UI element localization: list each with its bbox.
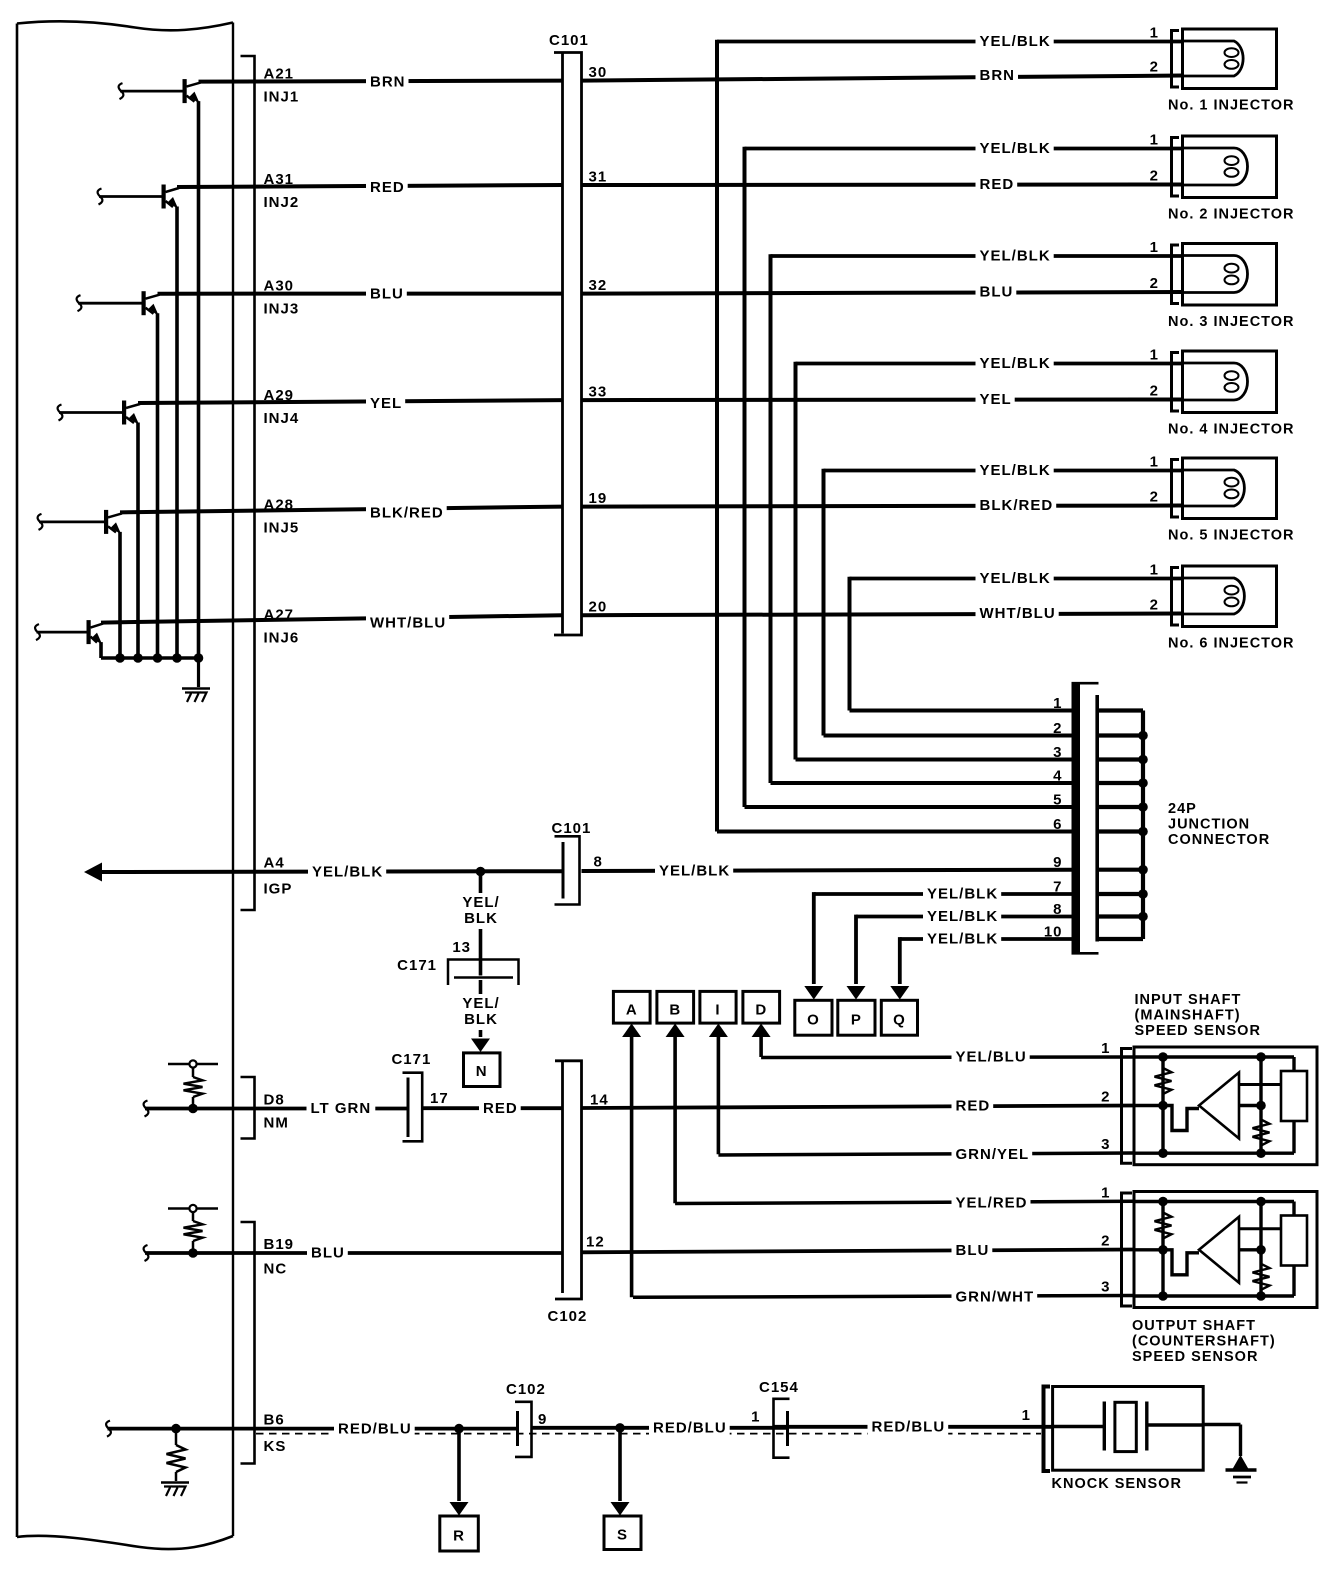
24P junction connector body — [1072, 683, 1081, 954]
connector C171 (in-line, D8 row) — [407, 1078, 410, 1138]
svg-text:8: 8 — [594, 854, 603, 871]
wire - GRN/WHT to speed sensor pin 3 — [633, 1296, 1134, 1298]
wire label GRN/WHT — [952, 1287, 1038, 1305]
junction — [1138, 731, 1148, 741]
junction — [188, 1248, 198, 1258]
svg-text:BRN: BRN — [370, 74, 406, 91]
junction (YEL/BLK branch) — [476, 867, 486, 877]
wire - Q5 emitter to ground rail — [118, 532, 122, 658]
svg-text:No. 3 INJECTOR: No. 3 INJECTOR — [1168, 314, 1295, 330]
svg-text:BLU: BLU — [980, 284, 1014, 301]
wire - BLK/RED C101 pin 19 to No.5 injector pin 2 — [582, 506, 1183, 507]
svg-text:BLU: BLU — [370, 286, 404, 303]
load resistor (output shaft sensor) — [1281, 1216, 1307, 1266]
wire label RED/BLU — [334, 1420, 415, 1438]
internal wiring (output shaft sensor) — [1239, 1248, 1261, 1251]
transistor Q3 (injector driver 3) — [77, 295, 82, 311]
ground (777) — [161, 1481, 189, 1484]
svg-text:2: 2 — [1101, 1089, 1110, 1106]
wire - YEL/BLK junction to P — [856, 915, 1072, 919]
svg-text:C101: C101 — [549, 32, 589, 49]
wire label BLU — [976, 284, 1017, 302]
injector connector bracket (No.5) — [1172, 460, 1180, 518]
wire - A4 IGP YEL/BLK (left segment with arrow) — [100, 869, 562, 874]
svg-text:RED/BLU: RED/BLU — [653, 1420, 727, 1437]
svg-text:2: 2 — [1150, 383, 1159, 400]
connector C171 (in-line, vertical wire) — [448, 960, 519, 986]
wire - YEL/BLK bus riser (injector 3) — [769, 254, 773, 783]
amplifier (output shaft sensor) — [1199, 1217, 1239, 1283]
svg-text:24P: 24P — [1168, 801, 1197, 817]
wire label YEL/BLK — [976, 355, 1054, 373]
transistor Q5 (injector driver 5) — [38, 514, 43, 530]
svg-text:INJ5: INJ5 — [264, 519, 300, 536]
wire - riser to A — [630, 1036, 634, 1297]
junction (S branch) — [615, 1423, 625, 1433]
svg-text:No. 6 INJECTOR: No. 6 INJECTOR — [1168, 636, 1295, 652]
internal bias network (input shaft sensor) — [1161, 1057, 1164, 1153]
wire - LT GRN D8 to C171 — [145, 1107, 407, 1111]
svg-text:YEL/BLK: YEL/BLK — [980, 140, 1051, 157]
injector connector bracket (No.4) — [1172, 353, 1180, 412]
node D (sensor signal) — [743, 991, 780, 1023]
svg-text:BLK/RED: BLK/RED — [980, 497, 1054, 514]
svg-text:SPEED SENSOR: SPEED SENSOR — [1135, 1023, 1261, 1039]
wire - BLU B19 to C102 pin 12 — [145, 1251, 562, 1255]
svg-text:BRN: BRN — [980, 67, 1016, 84]
wire start squiggle — [144, 1101, 149, 1117]
pull-up resistor (NM input) — [168, 1063, 218, 1066]
wire - A31 RED from Q2 to C101 pin 31 — [177, 185, 562, 187]
wire - YEL/BLK to No.1 injector pin 1 — [717, 40, 1182, 44]
svg-text:YEL/BLK: YEL/BLK — [927, 908, 998, 925]
svg-text:D8: D8 — [264, 1092, 285, 1109]
svg-text:2: 2 — [1150, 168, 1159, 185]
wire - RED/BLU C154 to knock sensor — [774, 1425, 1053, 1429]
junction — [1138, 865, 1148, 875]
svg-text:A27: A27 — [264, 607, 295, 624]
svg-text:INJ2: INJ2 — [264, 194, 300, 211]
input shaft speed sensor body — [1134, 1047, 1317, 1165]
wire start squiggle — [144, 1245, 149, 1261]
svg-text:INJ1: INJ1 — [264, 89, 300, 106]
transistor Q4 (injector driver 4) — [58, 405, 63, 421]
earth ground (knock sensor) — [1233, 1455, 1249, 1469]
wire label YEL/BLK — [976, 247, 1054, 265]
svg-text:6: 6 — [1053, 816, 1062, 833]
wire - YEL/BLK junction to Q — [900, 937, 1072, 941]
svg-text:1: 1 — [1053, 695, 1062, 712]
junction — [1138, 912, 1148, 922]
svg-text:YEL/BLK: YEL/BLK — [980, 248, 1051, 265]
wire label BLU — [366, 285, 407, 303]
svg-text:YEL/BLU: YEL/BLU — [956, 1049, 1027, 1066]
internal bias network (output shaft sensor) — [1161, 1202, 1164, 1297]
svg-text:1: 1 — [1150, 347, 1159, 364]
svg-text:YEL/BLK: YEL/BLK — [312, 864, 383, 881]
transistor Q6 (injector driver 6) — [35, 624, 40, 640]
wire - A29 YEL from Q4 to C101 pin 33 — [138, 400, 562, 403]
svg-text:1: 1 — [1101, 1184, 1110, 1201]
wire label YEL/BLK — [923, 930, 1001, 948]
svg-text:YEL/: YEL/ — [462, 894, 499, 911]
junction — [1138, 889, 1148, 899]
svg-text:O: O — [807, 1012, 820, 1029]
svg-text:17: 17 — [430, 1090, 449, 1107]
output shaft speed sensor connector bracket — [1122, 1193, 1133, 1306]
svg-text:2: 2 — [1150, 489, 1159, 506]
wire - Q2 emitter to ground rail — [175, 207, 179, 659]
svg-text:NC: NC — [264, 1261, 288, 1278]
wire - YEL/BLK bus riser (injector 4) — [794, 362, 798, 760]
wire - Q6 emitter to ground rail — [99, 642, 103, 658]
svg-text:WHT/BLU: WHT/BLU — [980, 605, 1056, 622]
wire label RED — [479, 1099, 521, 1117]
junction — [194, 653, 204, 663]
svg-text:JUNCTION: JUNCTION — [1168, 817, 1250, 833]
wire - junction connector pin to bus riser — [824, 734, 1072, 738]
arrow into R — [450, 1502, 469, 1516]
wire - rail to ground — [197, 658, 200, 687]
svg-text:INJ3: INJ3 — [264, 301, 300, 318]
wire - YEL/BLK to No.2 injector pin 1 — [745, 147, 1183, 151]
svg-text:RED: RED — [483, 1100, 518, 1117]
svg-text:RED: RED — [370, 179, 405, 196]
wire - RED/BLU C102 to C154 — [532, 1426, 788, 1430]
wire - YEL/BLK bus riser (injector 1) — [715, 40, 719, 832]
svg-text:1: 1 — [1150, 132, 1159, 149]
wire label BLK/RED — [976, 497, 1057, 515]
wire - YEL/BLK junction to O — [814, 892, 1072, 896]
wire - branch to R — [457, 1429, 461, 1501]
connector C101 (bulkhead, pins 30-33,19,20) — [564, 54, 581, 634]
svg-text:13: 13 — [452, 939, 471, 956]
No. 1 injector (solenoid) — [1183, 29, 1277, 89]
node A (sensor signal) — [613, 991, 650, 1023]
wire - riser to I — [717, 1036, 721, 1154]
svg-text:YEL/BLK: YEL/BLK — [980, 355, 1051, 372]
svg-text:BLU: BLU — [311, 1245, 345, 1262]
wire label BRN — [366, 73, 409, 91]
wire - BLU C101 pin 32 to No.3 injector pin 2 — [582, 292, 1183, 294]
svg-text:1: 1 — [1150, 454, 1159, 471]
wire - A27 WHT/BLU from Q6 to C101 pin 20 — [101, 615, 562, 622]
svg-text:A29: A29 — [264, 387, 295, 404]
wire label RED (at input sensor) — [952, 1097, 994, 1115]
No. 5 injector (solenoid) — [1183, 458, 1277, 519]
svg-text:YEL/BLK: YEL/BLK — [980, 462, 1051, 479]
svg-text:C154: C154 — [759, 1379, 799, 1396]
svg-text:C171: C171 — [397, 957, 437, 974]
svg-text:YEL/RED: YEL/RED — [956, 1195, 1028, 1212]
svg-text:B: B — [669, 1002, 681, 1019]
svg-text:14: 14 — [590, 1092, 609, 1109]
svg-text:P: P — [851, 1012, 862, 1029]
svg-text:33: 33 — [589, 384, 608, 401]
svg-text:12: 12 — [586, 1234, 605, 1251]
junction — [1138, 755, 1148, 765]
junction — [1138, 778, 1148, 788]
input shaft speed sensor connector bracket — [1122, 1049, 1133, 1164]
junction (R branch) — [454, 1424, 464, 1434]
wire - Q1 emitter to ground rail — [197, 101, 201, 658]
svg-text:YEL: YEL — [370, 395, 402, 412]
wire label BLK/RED — [366, 503, 447, 521]
svg-text:C102: C102 — [506, 1381, 546, 1398]
arrow into N — [471, 1039, 490, 1053]
node P (ground distribution) — [838, 1000, 875, 1035]
svg-text:B19: B19 — [264, 1236, 295, 1253]
wire label RED/BLU — [649, 1419, 730, 1437]
wire - junction connector pin to bus riser — [850, 709, 1072, 713]
connector C102 pin 9 (in-line) — [516, 1411, 519, 1446]
wire label YEL/BLK — [655, 862, 733, 880]
svg-text:31: 31 — [589, 169, 608, 186]
svg-text:INJ6: INJ6 — [264, 630, 300, 647]
wire - YEL/BLU to speed sensor pin 1 — [761, 1055, 1134, 1059]
wire - YEL/BLK bus riser (injector 6) — [848, 577, 852, 711]
wire label GRN/YEL — [952, 1145, 1033, 1163]
pull-up resistor (NC input) — [168, 1207, 218, 1210]
svg-text:S: S — [617, 1527, 628, 1544]
wire - YEL/BLK to No.4 injector pin 1 — [796, 362, 1183, 366]
junction — [188, 1104, 198, 1114]
svg-text:BLK: BLK — [464, 1011, 498, 1028]
arrow (to fuel pump feed, off-page) — [84, 863, 102, 882]
wire - YEL/BLK branch down to C171 — [479, 872, 483, 976]
wire label WHT/BLU — [366, 614, 449, 632]
svg-text:BLK: BLK — [464, 910, 498, 927]
svg-text:A21: A21 — [264, 66, 295, 83]
wire label YEL/ BLK (vertical branch) — [461, 893, 501, 929]
junction — [115, 653, 125, 663]
wire - YEL C101 pin 33 to No.4 injector pin 2 — [582, 398, 1183, 403]
wire - junction connector pin to bus riser — [771, 781, 1072, 785]
wire - junction connector pin to bus riser — [745, 805, 1072, 809]
svg-text:1: 1 — [1150, 562, 1159, 579]
amplifier (input shaft sensor) — [1199, 1073, 1239, 1139]
wire label YEL/BLK — [976, 570, 1054, 588]
wire label YEL/BLK — [308, 863, 386, 881]
arrow into S — [611, 1502, 630, 1516]
svg-text:IGP: IGP — [264, 881, 293, 898]
svg-text:No. 5 INJECTOR: No. 5 INJECTOR — [1168, 528, 1295, 544]
wire label BRN — [976, 67, 1019, 85]
svg-text:YEL/BLK: YEL/BLK — [980, 33, 1051, 50]
svg-text:A31: A31 — [264, 171, 295, 188]
wire - Q4 emitter to ground rail — [136, 423, 140, 659]
No. 3 injector (solenoid) — [1183, 244, 1277, 306]
svg-text:YEL/BLK: YEL/BLK — [927, 931, 998, 948]
svg-text:2: 2 — [1053, 720, 1062, 737]
svg-text:GRN/WHT: GRN/WHT — [956, 1288, 1035, 1305]
svg-text:A4: A4 — [264, 855, 285, 872]
injector connector bracket (No.6) — [1172, 568, 1180, 626]
wire label WHT/BLU — [976, 605, 1059, 623]
svg-text:RED/BLU: RED/BLU — [872, 1419, 946, 1436]
pin 1/2/3 leads (output shaft sensor) — [1134, 1200, 1163, 1203]
node S (knock signal) — [604, 1516, 641, 1550]
svg-text:A30: A30 — [264, 278, 295, 295]
wire - YEL/BLK C101 pin 8 to 24P junction pin 9 — [582, 870, 1072, 871]
wire - YEL/BLK bus riser (injector 5) — [822, 469, 826, 736]
wire label YEL/BLK — [923, 908, 1001, 926]
svg-text:INPUT SHAFT: INPUT SHAFT — [1135, 992, 1242, 1008]
svg-text:3: 3 — [1101, 1136, 1110, 1153]
ECU module outline (torn edges) — [17, 21, 233, 30]
ECU connector bracket (pins B19, B6) — [241, 1222, 255, 1464]
wire label BLU — [307, 1244, 348, 1262]
arrow into P — [847, 986, 866, 1000]
svg-text:GRN/YEL: GRN/YEL — [956, 1146, 1030, 1163]
ground rail (emitter common) — [101, 656, 199, 660]
arrow into A — [622, 1024, 641, 1038]
svg-text:2: 2 — [1101, 1233, 1110, 1250]
svg-text:A28: A28 — [264, 496, 295, 513]
svg-text:Q: Q — [893, 1012, 906, 1029]
svg-text:OUTPUT SHAFT: OUTPUT SHAFT — [1132, 1318, 1256, 1334]
wire - RED/BLU B6 knock sensor line (shielded) — [108, 1427, 518, 1431]
svg-text:2: 2 — [1150, 275, 1159, 292]
wire - WHT/BLU C101 pin 20 to No.6 injector pin 2 — [582, 614, 1183, 616]
svg-text:NM: NM — [264, 1115, 289, 1132]
output shaft speed sensor body — [1134, 1192, 1317, 1308]
transistor Q2 (injector driver 2) — [98, 189, 103, 205]
svg-text:INJ4: INJ4 — [264, 410, 300, 427]
node Q (ground distribution) — [881, 1000, 917, 1035]
svg-text:LT GRN: LT GRN — [311, 1100, 372, 1117]
wire - riser to D — [759, 1036, 763, 1057]
junction — [1138, 827, 1148, 837]
wire - BLU C102 to output sensor pin 2 — [582, 1250, 1135, 1253]
svg-text:WHT/BLU: WHT/BLU — [370, 615, 446, 632]
injector connector bracket (No.1) — [1172, 31, 1180, 88]
wire - junction connector pin to bus riser — [717, 830, 1072, 834]
wire - YEL/BLK bus riser (injector 2) — [743, 147, 747, 807]
wire label YEL/BLU — [952, 1048, 1030, 1066]
wire - YEL/BLK to No.5 injector pin 1 — [824, 469, 1183, 473]
wire label YEL/ BLK (below C171) — [461, 994, 501, 1030]
wire - RED C101 pin 31 to No.2 injector pin 2 — [582, 183, 1183, 188]
svg-text:3: 3 — [1053, 744, 1062, 761]
wire - YEL/RED to speed sensor pin 1 — [675, 1201, 1134, 1203]
svg-text:YEL: YEL — [980, 391, 1012, 408]
wire label RED — [976, 176, 1018, 194]
svg-text:CONNECTOR: CONNECTOR — [1168, 832, 1270, 848]
wire label YEL/BLK — [976, 33, 1054, 51]
arrow into O — [804, 986, 823, 1000]
wire label YEL — [976, 391, 1015, 409]
svg-text:2: 2 — [1150, 59, 1159, 76]
junction — [153, 653, 163, 663]
wire - junction connector pin to bus riser — [796, 758, 1072, 762]
wire - GRN/YEL to speed sensor pin 3 — [718, 1153, 1134, 1155]
svg-text:D: D — [755, 1002, 767, 1019]
svg-text:SPEED SENSOR: SPEED SENSOR — [1132, 1349, 1258, 1365]
svg-text:1: 1 — [1150, 25, 1159, 42]
svg-text:YEL/BLK: YEL/BLK — [927, 886, 998, 903]
wire - YEL/BLK to No.3 injector pin 1 — [771, 254, 1183, 258]
svg-text:1: 1 — [1022, 1407, 1031, 1424]
svg-text:A: A — [626, 1002, 638, 1019]
load resistor (input shaft sensor) — [1281, 1071, 1307, 1121]
node O (ground distribution) — [795, 1000, 832, 1035]
svg-text:19: 19 — [589, 490, 608, 507]
arrow into D — [752, 1024, 771, 1038]
knock sensor connector bracket — [1044, 1387, 1051, 1472]
svg-text:YEL/BLK: YEL/BLK — [980, 570, 1051, 587]
wire label BLU (at output sensor) — [952, 1241, 993, 1259]
wire label YEL/RED — [952, 1193, 1031, 1211]
svg-text:YEL/BLK: YEL/BLK — [659, 863, 730, 880]
svg-text:C171: C171 — [391, 1051, 431, 1068]
svg-text:I: I — [715, 1002, 720, 1019]
svg-text:(COUNTERSHAFT): (COUNTERSHAFT) — [1132, 1334, 1276, 1350]
svg-text:3: 3 — [1101, 1279, 1110, 1296]
transistor Q1 (injector driver 1) — [119, 83, 124, 99]
svg-text:RED: RED — [956, 1098, 991, 1115]
junction — [1138, 802, 1148, 812]
svg-text:1: 1 — [1150, 239, 1159, 256]
wire label YEL — [366, 394, 405, 412]
svg-text:2: 2 — [1150, 597, 1159, 614]
ECU connector bracket (pins A21-A27, A4) — [241, 56, 255, 910]
svg-text:BLU: BLU — [956, 1242, 990, 1259]
pin 1/2/3 leads (input shaft sensor) — [1134, 1055, 1163, 1058]
node B (sensor signal) — [657, 991, 694, 1023]
wire label LT GRN — [307, 1100, 376, 1118]
node I (sensor signal) — [700, 991, 736, 1023]
ground (777 chassis ground) — [182, 687, 210, 690]
wire label RED/BLU — [868, 1418, 949, 1436]
svg-text:1: 1 — [1101, 1040, 1110, 1057]
arrow into Q — [890, 986, 909, 1000]
wire - YEL/BLK to No.6 injector pin 1 — [850, 577, 1183, 581]
svg-text:KS: KS — [264, 1438, 287, 1455]
svg-text:1: 1 — [751, 1409, 760, 1426]
wire label YEL/BLK — [976, 462, 1054, 480]
svg-text:KNOCK SENSOR: KNOCK SENSOR — [1052, 1476, 1182, 1492]
arrow into B — [666, 1024, 685, 1038]
svg-text:YEL/: YEL/ — [462, 995, 499, 1012]
svg-text:C101: C101 — [552, 820, 592, 837]
svg-text:5: 5 — [1053, 792, 1062, 809]
knock sensor (piezo element) — [1053, 1387, 1204, 1471]
svg-text:9: 9 — [1053, 854, 1062, 871]
connector C154 (in-line) — [786, 1411, 789, 1446]
wire - RED C171 to C102 pin 14 — [424, 1106, 563, 1110]
wire label YEL/BLK — [923, 885, 1001, 903]
svg-text:BLK/RED: BLK/RED — [370, 504, 444, 521]
No. 4 injector (solenoid) — [1183, 351, 1277, 413]
svg-text:(MAINSHAFT): (MAINSHAFT) — [1135, 1008, 1241, 1024]
svg-text:C102: C102 — [548, 1308, 588, 1325]
svg-text:No. 4 INJECTOR: No. 4 INJECTOR — [1168, 422, 1295, 438]
wire - A28 BLK/RED from Q5 to C101 pin 19 — [120, 507, 562, 513]
arrow into I — [709, 1024, 728, 1038]
node R (knock signal) — [440, 1516, 479, 1551]
svg-text:No. 2 INJECTOR: No. 2 INJECTOR — [1168, 207, 1295, 223]
terminating resistor (KS) — [171, 1424, 181, 1434]
junction connector internal bus — [1141, 711, 1145, 940]
wire - BRN C101 pin 30 to No.1 injector pin 2 — [582, 76, 1183, 81]
svg-text:B6: B6 — [264, 1412, 285, 1429]
wire - A21 BRN from Q1 to C101 pin 30 — [199, 81, 563, 82]
svg-text:9: 9 — [538, 1411, 547, 1428]
svg-text:N: N — [476, 1063, 488, 1080]
wire - A30 BLU from Q3 to C101 pin 32 — [158, 292, 563, 296]
wire - YEL/BLK C171 to N — [479, 980, 483, 1037]
